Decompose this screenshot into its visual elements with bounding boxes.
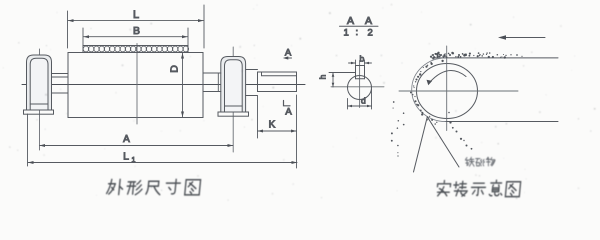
drum horizontal centerline — [399, 90, 518, 92]
left bearing inner body — [30, 58, 48, 110]
shaft collar right of bearing — [246, 69, 258, 71]
caption: 安装示意图 (installation schematic) — [437, 180, 521, 196]
section centerline horizontal — [331, 86, 384, 88]
dimension A (bearing centers) — [40, 144, 234, 147]
shaft section circle — [348, 76, 372, 100]
寸 — [165, 179, 180, 193]
horizontal centerline — [22, 84, 305, 86]
belt bottom line — [445, 121, 558, 123]
svg-text:h: h — [318, 74, 328, 79]
铁 — [465, 157, 474, 166]
drum vertical centerline — [136, 44, 138, 125]
material dots around drum left — [410, 55, 444, 124]
label: 铁磁物 (ferromagnetic material) — [465, 157, 495, 166]
svg-text:A: A — [365, 15, 372, 27]
svg-text:2: 2 — [368, 28, 373, 39]
svg-text:d: d — [361, 96, 366, 106]
keyway line on shaft end — [262, 72, 297, 76]
dimension B — [83, 28, 188, 46]
dimension D (vertical, inside drum) — [181, 53, 184, 117]
material dots on top belt — [430, 52, 523, 58]
安 — [437, 181, 451, 196]
splitter V — [414, 117, 428, 172]
caption: 外形尺寸图 (outline dimension drawing) — [106, 179, 200, 194]
svg-text:A: A — [285, 107, 292, 118]
svg-text:B: B — [133, 25, 140, 37]
shaft collar edge at right bearing — [217, 73, 219, 92]
section mark A-A top — [283, 56, 292, 59]
svg-text:K: K — [269, 120, 276, 131]
shaft between drum and right bearing — [203, 72, 221, 74]
svg-text:L: L — [123, 151, 129, 163]
right bearing centerline — [232, 47, 234, 152]
extra material speckles — [412, 52, 506, 123]
意 — [489, 180, 503, 196]
svg-text:A: A — [285, 48, 292, 59]
section mark A-A bottom — [284, 101, 291, 106]
belt wrap arc — [412, 58, 446, 122]
dimension K — [258, 95, 297, 168]
dimension h (key top to centerline) — [329, 73, 355, 88]
A-A underline — [340, 25, 379, 27]
rotation arrow — [430, 70, 467, 82]
key (protruding) — [356, 66, 365, 79]
magnet band — [83, 46, 188, 53]
shaft between left bearing and drum — [52, 73, 69, 75]
dimension L — [68, 5, 205, 48]
left bearing outer body — [27, 55, 52, 110]
svg-text:1: 1 — [344, 28, 349, 39]
磁 — [476, 159, 485, 166]
dimension d (shaft dia) — [348, 89, 372, 109]
right bearing inner body — [225, 60, 243, 112]
drum vertical centerline — [446, 46, 448, 131]
dimension b (key width) — [349, 60, 372, 65]
装 — [453, 181, 468, 196]
形 — [126, 181, 142, 195]
svg-text:b: b — [360, 54, 365, 64]
svg-text:A: A — [347, 15, 354, 27]
svg-text:D: D — [169, 65, 181, 73]
belt top line — [432, 57, 558, 59]
外 — [106, 179, 123, 194]
尺 — [146, 181, 161, 194]
right bearing outer body — [221, 57, 246, 113]
图 — [505, 182, 520, 197]
left bearing base — [24, 110, 54, 114]
magnet circles — [83, 46, 188, 52]
falling dots magnetic stream — [448, 112, 472, 150]
示 — [471, 183, 486, 195]
物 — [486, 157, 495, 166]
keyed shaft end — [258, 72, 297, 92]
dimension L1 (overall) — [28, 114, 298, 166]
svg-text::: : — [356, 27, 359, 38]
belt direction arrow — [500, 37, 545, 39]
left bearing centerline — [39, 49, 41, 150]
section centerline vertical — [359, 61, 361, 108]
falling dots left stream — [391, 101, 405, 157]
svg-text:A: A — [123, 134, 130, 145]
drum ellipse — [417, 64, 478, 119]
svg-text:1: 1 — [132, 157, 136, 164]
svg-text:L: L — [133, 9, 139, 21]
图 — [185, 180, 201, 195]
right bearing base — [218, 112, 249, 116]
drum body — [68, 53, 203, 118]
